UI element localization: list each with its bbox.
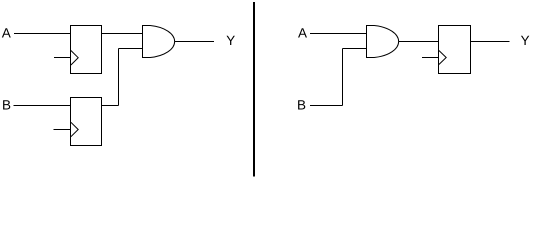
wire A to flip-flop U1 [14, 33, 71, 35]
divider line between the two circuits [253, 2, 255, 177]
wire A to AND gate top input [310, 33, 367, 35]
clock triangle U3 [439, 51, 446, 65]
flip-flop U2 body [71, 98, 102, 146]
node Y (right circuit output label) [521, 36, 529, 45]
node B (left circuit input label) [3, 100, 10, 109]
wire U2 output horizontal segment [102, 105, 119, 107]
wire U1 output to AND gate top input [102, 33, 143, 35]
node B (right circuit input label) [298, 100, 305, 109]
node A (right circuit input label) [298, 28, 307, 37]
AND gate G2 (right circuit) [367, 26, 399, 58]
clock stub U1 [54, 57, 71, 59]
AND gate G1 (left circuit) [143, 26, 175, 58]
wire into AND gate bottom input [343, 48, 367, 50]
clock triangle U1 [71, 51, 78, 66]
clock stub U3 [422, 57, 439, 59]
flip-flop U3 body [439, 26, 471, 74]
wire G2 output to flip-flop U3 [399, 41, 439, 43]
wire into AND gate bottom input [119, 48, 143, 50]
wire G1 output to Y [175, 41, 215, 43]
wire B vertical riser [342, 49, 344, 106]
node Y (left circuit output label) [227, 36, 235, 45]
wire U3 output to Y [471, 41, 510, 43]
wire B to flip-flop U2 [14, 105, 71, 107]
clock stub U2 [54, 129, 71, 131]
wire vertical riser to AND gate [118, 49, 120, 106]
node A (left circuit input label) [2, 28, 11, 37]
wire B horizontal segment [310, 105, 343, 107]
flip-flop U1 body [71, 26, 102, 74]
clock triangle U2 [71, 122, 78, 136]
